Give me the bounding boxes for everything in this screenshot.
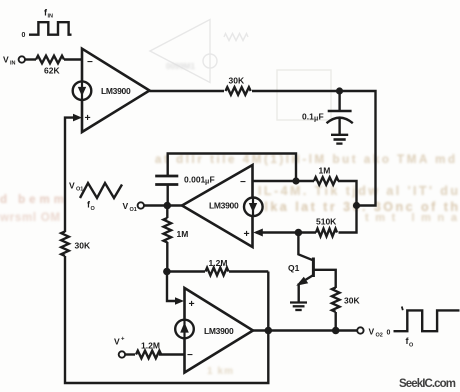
svg-text:F: F (210, 175, 215, 185)
svg-text:1 km: 1 km (207, 366, 233, 377)
svg-text:0099M1: 0099M1 (166, 62, 195, 71)
svg-text:O1: O1 (76, 187, 83, 193)
svg-text:30K: 30K (229, 76, 245, 86)
svg-text:LM3900: LM3900 (209, 201, 239, 211)
svg-text:0.1: 0.1 (302, 112, 314, 122)
svg-text:1.2M: 1.2M (209, 258, 228, 268)
svg-text:IL-4M. Tik tjdw al 'IT' du: IL-4M. Tik tjdw al 'IT' du (258, 184, 458, 198)
svg-text:30K: 30K (344, 296, 360, 306)
svg-text:1M: 1M (319, 166, 331, 176)
svg-text:wrsml OM: wrsml OM (0, 212, 60, 224)
svg-text:V: V (369, 327, 375, 337)
svg-text:−: − (187, 350, 193, 361)
svg-text:V: V (114, 337, 120, 347)
svg-text:at dllr tile 4M(1)IH-lM but ak: at dllr tile 4M(1)IH-lM but ako TMA md (155, 154, 455, 166)
svg-text:F: F (319, 112, 324, 122)
svg-text:−: − (87, 57, 93, 68)
svg-text:O: O (91, 206, 96, 212)
svg-text:V: V (69, 181, 75, 191)
svg-text:O: O (409, 343, 414, 349)
svg-text:+: + (85, 112, 91, 124)
svg-text:510K: 510K (316, 217, 337, 227)
svg-text:1M: 1M (177, 229, 189, 239)
svg-text:V: V (3, 55, 9, 65)
svg-text:1.2M: 1.2M (141, 341, 160, 351)
svg-text:0: 0 (22, 32, 26, 39)
svg-text:+: + (244, 228, 250, 240)
svg-text:LM3900: LM3900 (204, 326, 234, 336)
svg-text:0: 0 (387, 330, 391, 337)
svg-text:IN: IN (10, 61, 16, 67)
svg-text:+: + (189, 298, 195, 310)
svg-text:LM3900: LM3900 (101, 86, 131, 96)
svg-text:Q1: Q1 (288, 263, 300, 273)
svg-text:−: − (240, 177, 246, 188)
svg-text:V: V (123, 201, 129, 211)
svg-text:+: + (121, 337, 125, 343)
svg-text:O2: O2 (376, 333, 383, 339)
svg-text:IN: IN (48, 14, 54, 20)
svg-text:tmt lmna: tmt lmna (365, 212, 458, 224)
svg-text:30K: 30K (75, 241, 91, 251)
svg-text:O1: O1 (130, 207, 137, 213)
svg-text:0.001: 0.001 (184, 175, 206, 185)
svg-text:62K: 62K (44, 66, 60, 76)
svg-text:d bemm: d bemm (0, 194, 64, 206)
svg-text:SeekIC.com: SeekIC.com (399, 378, 456, 390)
